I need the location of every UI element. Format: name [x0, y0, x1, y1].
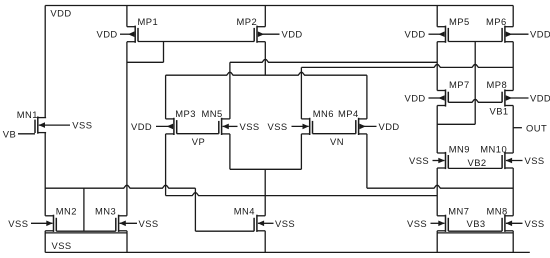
svg-text:VDD: VDD	[405, 29, 426, 40]
svg-text:VDD: VDD	[530, 93, 550, 104]
svg-text:MN9: MN9	[449, 144, 470, 155]
svg-text:MP2: MP2	[237, 16, 258, 27]
svg-text:MP7: MP7	[449, 79, 470, 90]
svg-text:MP6: MP6	[486, 16, 507, 27]
svg-text:MN8: MN8	[487, 206, 508, 217]
svg-text:VSS: VSS	[275, 218, 295, 229]
svg-text:MN1: MN1	[17, 109, 38, 120]
svg-text:MP4: MP4	[338, 108, 359, 119]
svg-text:VB1: VB1	[490, 106, 509, 117]
svg-text:VSS: VSS	[525, 155, 545, 166]
svg-text:VB2: VB2	[468, 157, 487, 168]
svg-text:MN4: MN4	[234, 206, 255, 217]
svg-text:MP3: MP3	[175, 108, 196, 119]
svg-text:VDD: VDD	[282, 29, 303, 40]
svg-text:VDD: VDD	[131, 121, 152, 132]
svg-text:VSS: VSS	[72, 120, 92, 131]
svg-text:VDD: VDD	[50, 8, 71, 19]
svg-text:MN7: MN7	[448, 206, 469, 217]
svg-text:VDD: VDD	[405, 93, 426, 104]
svg-text:VSS: VSS	[8, 218, 28, 229]
svg-text:MN2: MN2	[56, 206, 77, 217]
svg-text:VDD: VDD	[530, 29, 550, 40]
svg-text:VP: VP	[192, 136, 205, 147]
svg-text:VSS: VSS	[139, 218, 159, 229]
svg-text:VSS: VSS	[240, 121, 260, 132]
svg-text:VSS: VSS	[409, 155, 429, 166]
svg-text:VSS: VSS	[52, 240, 72, 251]
svg-text:VSS: VSS	[407, 218, 427, 229]
svg-text:VN: VN	[330, 136, 344, 147]
svg-text:MN6: MN6	[313, 108, 334, 119]
svg-text:MN10: MN10	[480, 144, 507, 155]
svg-text:MN3: MN3	[95, 206, 116, 217]
svg-text:VDD: VDD	[379, 121, 400, 132]
svg-text:VB3: VB3	[467, 218, 486, 229]
svg-text:VSS: VSS	[525, 218, 545, 229]
svg-text:VSS: VSS	[268, 121, 288, 132]
svg-text:MP8: MP8	[487, 79, 508, 90]
svg-text:MN5: MN5	[202, 108, 223, 119]
svg-text:MP5: MP5	[449, 16, 470, 27]
svg-text:VDD: VDD	[97, 29, 118, 40]
svg-text:MP1: MP1	[138, 16, 159, 27]
svg-text:VB: VB	[3, 128, 16, 139]
svg-text:OUT: OUT	[526, 123, 547, 134]
